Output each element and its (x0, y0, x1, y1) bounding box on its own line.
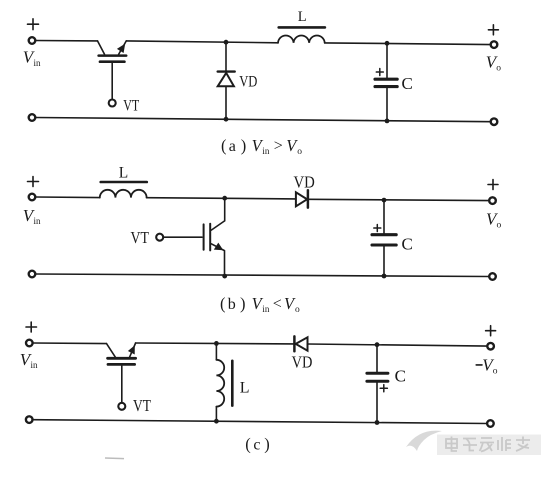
terminal bottom-left (c) (26, 416, 33, 423)
capacitor C (a) (375, 43, 397, 121)
caption (a) Vin > Vo (221, 136, 302, 157)
svg-text:): ) (241, 136, 247, 155)
diode VD (b) (296, 190, 489, 207)
terminal bottom-right (b) (489, 273, 496, 280)
svg-text:c: c (253, 436, 260, 453)
node junction bottom of diode (a) (224, 117, 229, 122)
svg-text:o: o (497, 220, 502, 230)
node Vin+ plus sign (b) (28, 177, 39, 187)
svg-text:o: o (493, 367, 498, 377)
wire top rail (b) from Vin+ to inductor (35, 196, 99, 199)
transistor VT (a) body (98, 41, 127, 100)
node Vo+ plus sign (b) (488, 180, 498, 190)
inductor L (a) coil (278, 35, 325, 42)
svg-text:(: ( (245, 434, 251, 453)
terminal Vin+ (c) (26, 340, 33, 347)
diode VD (a) (218, 42, 235, 119)
svg-text:o: o (295, 305, 300, 315)
wire top rail (a) from Vin+ to transistor (35, 40, 97, 42)
capacitor C (a) polarity plus (376, 69, 383, 76)
wire top rail (c) from Vin+ to transistor (33, 342, 107, 345)
diode VD (c) (294, 336, 487, 351)
label Vin (a) (23, 48, 41, 68)
node -Vo plus sign (c) (486, 326, 496, 336)
inductor L (c) coil (216, 343, 224, 421)
svg-text:VD: VD (239, 74, 257, 91)
watermark text 电子发烧友 (stylized) (446, 437, 530, 452)
svg-text:in: in (31, 360, 39, 370)
svg-text:in: in (34, 216, 42, 226)
node junction bottom of inductor (c) (214, 419, 219, 424)
terminal bottom-left (a) (29, 114, 36, 121)
label Vo (a) (486, 53, 502, 74)
inductor L (b) coil (100, 190, 147, 198)
svg-text:C: C (402, 74, 413, 93)
svg-text:VD: VD (294, 173, 315, 192)
terminal Vo+ (a) (491, 41, 498, 48)
wire top rail (b) inductor to diode (147, 198, 296, 199)
node junction bottom of capacitor (a) (385, 119, 390, 124)
node junction top of capacitor (c) (375, 342, 380, 347)
terminal -Vo (c) (487, 343, 494, 350)
minus sign of -Vo label (c) (476, 364, 482, 366)
node junction bottom of capacitor (b) (382, 274, 387, 279)
svg-text:L: L (119, 165, 128, 182)
node Vo+ plus sign (a) (488, 25, 498, 35)
node junction top of capacitor (a) (385, 41, 390, 46)
scan artifact dash (105, 457, 124, 460)
svg-text:b: b (228, 296, 236, 313)
label Vo (b) (486, 209, 502, 230)
wire top rail (a) inductor to Vo+ (325, 43, 491, 45)
transistor VT (c) body (107, 343, 136, 403)
terminal bottom-right (c) (487, 420, 494, 427)
transistor VT (b) gate terminal circle (156, 234, 163, 241)
svg-text:o: o (297, 147, 302, 157)
label Vin (c) (20, 350, 38, 370)
node junction emitter bottom (b) (222, 274, 227, 279)
transistor VT (a) gate terminal circle (109, 100, 116, 107)
label -Vo (c) (482, 356, 498, 377)
watermark background band (437, 435, 541, 456)
transistor VT (c) gate terminal circle (118, 403, 125, 410)
wire top rail (c) transistor to diode (136, 342, 295, 345)
node Vin+ plus sign (a) (28, 19, 39, 30)
caption (b) Vin < Vo (220, 294, 300, 315)
svg-text:VT: VT (123, 97, 139, 114)
svg-text:VT: VT (133, 396, 151, 415)
transistor VT (b) body (163, 198, 224, 276)
terminal Vin+ (b) (29, 194, 36, 201)
node junction top of inductor (c) (214, 341, 219, 346)
svg-text:VD: VD (292, 352, 313, 371)
node junction bottom of capacitor (c) (375, 420, 380, 425)
svg-text:<: < (273, 295, 282, 312)
wire bottom rail (b) (35, 274, 489, 277)
node junction top of capacitor (b) (382, 198, 387, 203)
wire top rail (a) transistor to inductor (126, 41, 278, 43)
label Vin (b) (23, 206, 41, 226)
capacitor C (b) (372, 200, 396, 276)
node junction collector (b) (222, 196, 227, 201)
terminal Vo+ (b) (489, 197, 496, 204)
terminal Vin+ (a) (29, 37, 36, 44)
svg-text:L: L (298, 9, 307, 25)
wire bottom rail (c) (33, 420, 488, 424)
capacitor C (c) polarity plus (380, 385, 387, 392)
capacitor C (c) (367, 345, 388, 423)
svg-text:L: L (240, 379, 250, 396)
svg-text:in: in (34, 58, 42, 68)
watermark logo swoosh (406, 431, 442, 451)
svg-text:(: ( (221, 136, 227, 155)
terminal bottom-left (b) (29, 271, 36, 278)
caption (c) (245, 434, 270, 453)
wire bottom rail (a) (35, 118, 491, 122)
svg-text:in: in (262, 146, 270, 156)
svg-text:(: ( (220, 294, 226, 313)
node junction top of diode (a) (224, 40, 229, 45)
svg-text:o: o (496, 64, 501, 74)
inductor L (a) core bar (279, 26, 325, 29)
inductor L (b) core bar (101, 181, 147, 184)
svg-text:in: in (262, 304, 270, 314)
svg-text:>: > (274, 137, 283, 154)
svg-text:VT: VT (131, 228, 150, 247)
svg-text:C: C (395, 367, 406, 386)
capacitor C (b) polarity plus (374, 225, 381, 232)
node Vin+ plus sign (c) (26, 322, 37, 332)
svg-text:a: a (229, 138, 236, 155)
svg-text:): ) (264, 434, 270, 453)
svg-text:): ) (240, 294, 246, 313)
inductor L (c) core bar (231, 361, 234, 406)
terminal bottom-right (a) (491, 118, 498, 125)
svg-text:C: C (402, 234, 413, 253)
